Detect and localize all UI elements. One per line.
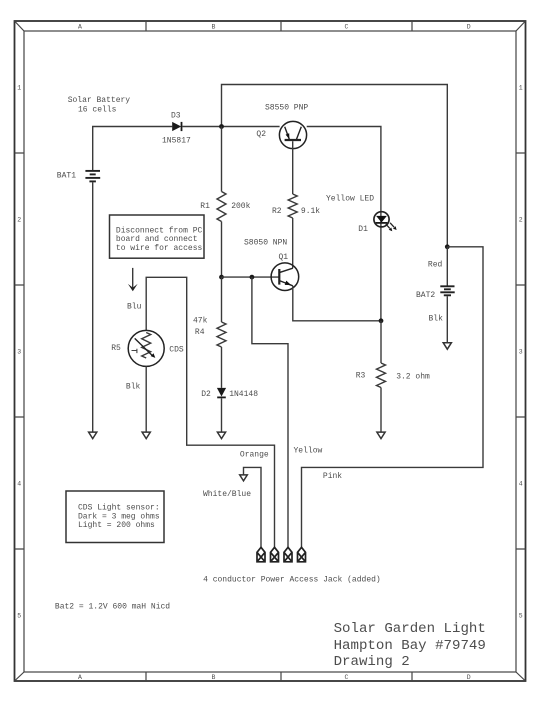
note box Disconnect xyxy=(110,215,205,258)
svg-text:200k: 200k xyxy=(231,202,250,211)
label R4 xyxy=(195,328,205,337)
label D3 xyxy=(171,111,181,120)
svg-text:D2: D2 xyxy=(201,390,211,399)
svg-text:R1: R1 xyxy=(200,202,210,211)
wire pink: node right, down, left, down to jack4 xyxy=(302,247,484,548)
wire Q2 base down to R2 xyxy=(292,141,294,194)
svg-text:1N5817: 1N5817 xyxy=(162,136,191,145)
label Blk left xyxy=(126,382,141,391)
svg-text:R4: R4 xyxy=(195,328,205,337)
svg-text:D: D xyxy=(467,23,471,30)
svg-text:board and connect: board and connect xyxy=(116,235,198,244)
svg-text:Blk: Blk xyxy=(126,382,141,391)
wire R1 bottom to node2 xyxy=(221,222,223,278)
wire R2 bottom to Q1 collector xyxy=(292,218,294,268)
wire node3 down to R3 xyxy=(380,321,382,363)
svg-text:16 cells: 16 cells xyxy=(78,105,117,114)
label CDS xyxy=(169,346,184,355)
svg-text:BAT1: BAT1 xyxy=(57,171,76,180)
svg-text:9.1k: 9.1k xyxy=(301,207,320,216)
svg-text:Dark = 3 meg ohms: Dark = 3 meg ohms xyxy=(78,512,160,521)
wire BAT1 top to diode anode xyxy=(93,127,173,171)
connector jack pin 3 xyxy=(284,547,292,562)
label 9.1k xyxy=(301,207,320,216)
connector jack pin 1 xyxy=(257,547,265,562)
svg-text:Solar Garden Light: Solar Garden Light xyxy=(334,621,486,637)
svg-text:4: 4 xyxy=(519,480,523,487)
svg-text:Solar Battery: Solar Battery xyxy=(68,96,131,105)
svg-text:Blk: Blk xyxy=(429,314,444,323)
ground arrow D2 branch xyxy=(217,432,225,439)
arrow Blu pointer xyxy=(128,268,138,291)
wire top rail V+ from bus up over to BAT2 xyxy=(222,85,448,247)
resistor R2 xyxy=(288,194,297,218)
wire base node to Q1 xyxy=(222,276,279,278)
label 200k xyxy=(231,202,250,211)
svg-text:R3: R3 xyxy=(356,372,366,381)
wire D2 to ground xyxy=(221,398,223,432)
svg-text:to wire for access: to wire for access xyxy=(116,244,203,253)
svg-text:Orange: Orange xyxy=(240,451,269,460)
connector jack pin 4 xyxy=(298,547,306,562)
svg-text:Disconnect from PC: Disconnect from PC xyxy=(116,226,203,235)
svg-text:CDS Light sensor:: CDS Light sensor: xyxy=(78,503,160,512)
svg-text:C: C xyxy=(345,23,349,30)
svg-text:2: 2 xyxy=(17,216,21,223)
ground arrow R3 xyxy=(377,432,385,439)
wire diode cathode to node xyxy=(182,126,279,128)
svg-text:S8550 PNP: S8550 PNP xyxy=(265,104,308,113)
wire node to BAT2 plus xyxy=(446,247,448,286)
svg-text:S8050 NPN: S8050 NPN xyxy=(244,239,287,248)
node junction bus/base wire xyxy=(219,275,224,280)
photoresistor R5 CDS xyxy=(128,330,164,366)
transistor Q1 xyxy=(271,263,299,291)
label 1N5817 xyxy=(162,136,191,145)
svg-text:R5: R5 xyxy=(111,344,121,353)
svg-text:C: C xyxy=(345,674,349,681)
label Q2 xyxy=(256,130,266,139)
transistor Q2 xyxy=(279,121,306,148)
resistor R1 xyxy=(217,192,226,222)
svg-text:D3: D3 xyxy=(171,111,181,120)
label Yellow xyxy=(294,446,323,455)
wire CDS bottom to ground xyxy=(145,366,147,432)
label Pink xyxy=(323,472,342,481)
svg-text:4 conductor Power Access Jack: 4 conductor Power Access Jack (added) xyxy=(203,576,381,585)
note box CDS Light sensor xyxy=(66,491,164,543)
svg-text:3: 3 xyxy=(519,348,523,355)
label Red xyxy=(428,260,443,269)
resistor R4 xyxy=(217,322,226,347)
svg-text:Hampton Bay #79749: Hampton Bay #79749 xyxy=(334,638,486,654)
svg-text:Blu: Blu xyxy=(127,302,142,311)
label R1 xyxy=(200,202,210,211)
wire white/blue with arrow to jack1 xyxy=(244,467,262,547)
ground arrow CDS xyxy=(142,432,150,439)
svg-text:1N4148: 1N4148 xyxy=(229,390,258,399)
svg-text:Drawing 2: Drawing 2 xyxy=(334,654,410,670)
svg-text:D: D xyxy=(467,674,471,681)
wire R4 bottom to D2 xyxy=(221,347,223,388)
ground arrow BAT1 xyxy=(89,432,97,439)
svg-text:Bat2 = 1.2V 600 maH Nicd: Bat2 = 1.2V 600 maH Nicd xyxy=(55,602,170,611)
label S8050 NPN xyxy=(244,239,287,248)
wire yellow: tap node down, right, down to jack3 xyxy=(252,277,288,547)
diode D3 xyxy=(172,122,181,131)
label Yellow LED xyxy=(326,195,374,204)
label 4 conductor Power Access Jack (added) xyxy=(203,576,381,585)
svg-text:Q1: Q1 xyxy=(279,253,289,262)
svg-text:A: A xyxy=(78,674,82,681)
svg-text:Yellow: Yellow xyxy=(294,446,323,455)
label Orange xyxy=(240,451,269,460)
svg-text:3.2 ohm: 3.2 ohm xyxy=(396,372,430,381)
label D2 xyxy=(201,390,211,399)
wire bus node2 down to R4 xyxy=(221,277,223,322)
ground arrow BAT2 xyxy=(443,343,451,350)
label S8550 PNP xyxy=(265,104,308,113)
battery BAT1 xyxy=(85,171,100,182)
wire BAT1 minus down to ground xyxy=(92,182,94,432)
node junction yellow tap xyxy=(250,275,255,280)
label Solar Battery xyxy=(68,96,131,105)
svg-text:5: 5 xyxy=(519,612,523,619)
label 47k xyxy=(193,316,208,325)
label R5 xyxy=(111,344,121,353)
svg-text:B: B xyxy=(212,674,216,681)
wire BAT2 minus to ground xyxy=(446,296,448,342)
node junction at bus and D3 xyxy=(219,124,224,129)
wire R3 to ground xyxy=(380,388,382,433)
LED D1 xyxy=(374,212,397,232)
label 16 cells xyxy=(78,105,117,114)
svg-text:1: 1 xyxy=(519,84,523,91)
wire bus node down to R1 xyxy=(221,127,223,192)
svg-text:A: A xyxy=(78,23,82,30)
svg-text:5: 5 xyxy=(17,612,21,619)
label BAT2 xyxy=(416,291,435,300)
note Bat2 spec xyxy=(55,602,170,611)
svg-text:CDS: CDS xyxy=(169,346,184,355)
title block text xyxy=(334,621,486,670)
svg-text:BAT2: BAT2 xyxy=(416,291,435,300)
wire orange: CDS top loop to jack2 xyxy=(146,277,274,547)
connector jack pin 2 xyxy=(271,547,279,562)
svg-text:R2: R2 xyxy=(272,207,282,216)
label Blu xyxy=(127,302,142,311)
svg-text:Yellow LED: Yellow LED xyxy=(326,195,374,204)
label 3.2 ohm xyxy=(396,372,430,381)
svg-text:Light = 200 ohms: Light = 200 ohms xyxy=(78,521,155,530)
svg-text:4: 4 xyxy=(17,480,21,487)
label Q1 xyxy=(279,253,289,262)
svg-text:B: B xyxy=(212,23,216,30)
node junction LED/R3/Q1 xyxy=(379,318,384,323)
svg-text:2: 2 xyxy=(519,216,523,223)
svg-text:Red: Red xyxy=(428,260,443,269)
arrow white/blue lead xyxy=(240,475,248,481)
wire Q2 collector to LED branch xyxy=(307,127,381,321)
label 1N4148 xyxy=(229,390,258,399)
node junction BAT2 tap xyxy=(445,244,450,249)
svg-text:D1: D1 xyxy=(358,225,368,234)
wire Q1 emitter down and right to node3 xyxy=(293,286,381,321)
resistor R3 xyxy=(377,363,386,388)
svg-text:Q2: Q2 xyxy=(256,130,266,139)
label R3 xyxy=(356,372,366,381)
svg-text:Pink: Pink xyxy=(323,472,342,481)
svg-text:White/Blue: White/Blue xyxy=(203,490,251,499)
label White/Blue xyxy=(203,490,251,499)
diode D2 xyxy=(217,388,226,398)
svg-text:47k: 47k xyxy=(193,316,208,325)
svg-text:3: 3 xyxy=(17,348,21,355)
label D1 xyxy=(358,225,368,234)
label R2 xyxy=(272,207,282,216)
svg-text:1: 1 xyxy=(17,84,21,91)
label Blk right xyxy=(429,314,444,323)
label BAT1 xyxy=(57,171,76,180)
battery BAT2 xyxy=(440,286,454,295)
